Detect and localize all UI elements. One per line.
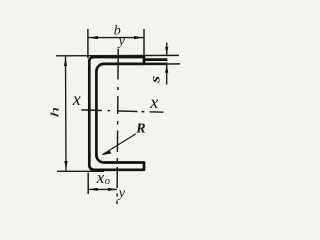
svg-text:R: R — [135, 122, 145, 137]
label y (top) — [117, 34, 126, 49]
svg-text:o: o — [105, 176, 110, 187]
label h (rotated) — [48, 107, 61, 118]
svg-text:y: y — [117, 186, 126, 201]
y-axis centerline — [117, 49, 118, 205]
dimension s extension line (lower) — [143, 63, 181, 65]
dimension s arrows — [165, 43, 168, 85]
radius R leader — [101, 134, 135, 155]
label x (left) — [72, 89, 81, 109]
svg-text:h: h — [48, 107, 61, 118]
svg-text:x: x — [72, 89, 81, 109]
channel section outline — [89, 57, 144, 170]
svg-text:x: x — [96, 168, 105, 187]
dimension b extension line right — [143, 29, 145, 57]
dimension X0 line with arrows — [89, 188, 117, 191]
top extension line (h and s reference) — [56, 54, 179, 56]
flange thickness detail line upper — [144, 58, 167, 61]
svg-text:y: y — [117, 34, 126, 49]
dimension X0 extension line left — [87, 173, 89, 194]
flange thickness detail line lower — [144, 63, 167, 66]
label x (right) — [149, 92, 158, 112]
label y (bottom) — [117, 186, 126, 201]
dimension h line with arrows — [64, 57, 68, 171]
label X0 — [96, 168, 110, 187]
label b — [114, 23, 121, 38]
svg-text:s: s — [148, 76, 163, 84]
dimension b extension line left — [87, 29, 89, 58]
bottom extension line (h reference) — [57, 170, 104, 172]
label s (rotated) — [148, 76, 163, 84]
svg-text:x: x — [149, 92, 158, 112]
label R — [135, 122, 145, 137]
x-axis centerline — [81, 110, 163, 112]
dimension b line with arrows — [88, 36, 143, 39]
